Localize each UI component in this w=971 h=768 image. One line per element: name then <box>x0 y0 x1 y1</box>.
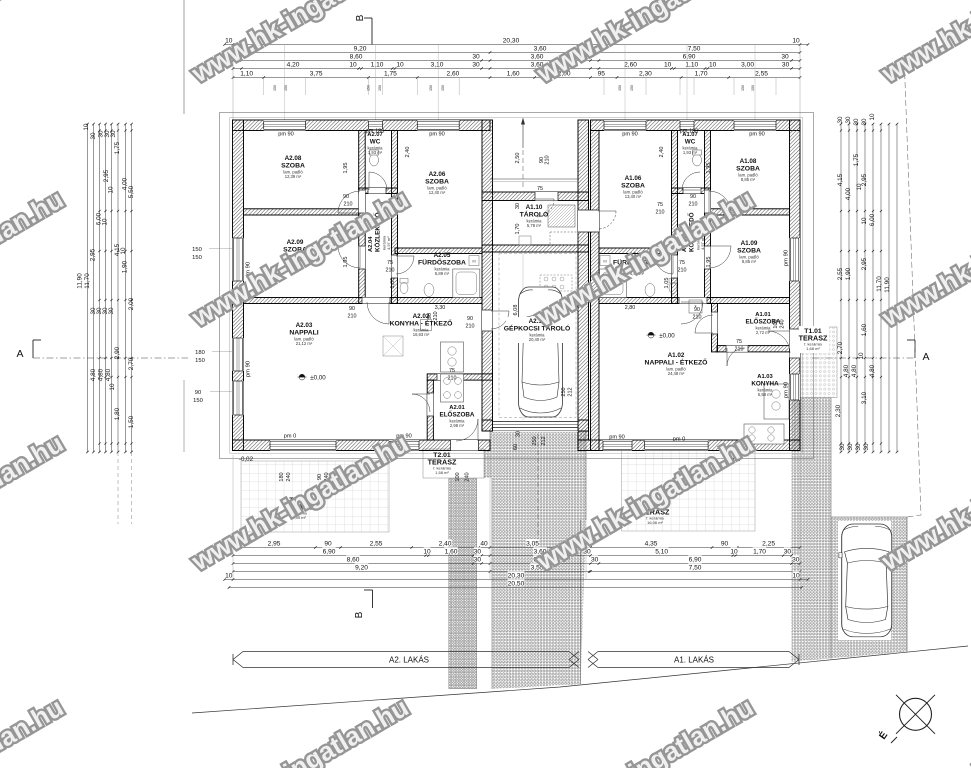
svg-text:150: 150 <box>192 255 202 261</box>
svg-text:2,25: 2,25 <box>762 541 775 548</box>
svg-text:KONYHA: KONYHA <box>751 381 779 388</box>
svg-text:4,80: 4,80 <box>869 364 876 377</box>
svg-text:KONYHA - ÉTKEZŐ: KONYHA - ÉTKEZŐ <box>390 319 453 328</box>
partition corridor west A2 <box>359 131 366 304</box>
svg-text:90: 90 <box>195 390 201 396</box>
svg-text:1,05: 1,05 <box>664 278 670 289</box>
door arc A2.08 <box>338 191 360 213</box>
svg-text:21,12 m²: 21,12 m² <box>296 341 313 346</box>
svg-text:4,35: 4,35 <box>645 541 658 548</box>
svg-text:100: 100 <box>455 472 461 481</box>
svg-text:GÉPKOCSI TÁROLÓ: GÉPKOCSI TÁROLÓ <box>504 324 570 333</box>
svg-text:90: 90 <box>467 316 473 322</box>
garage shelf fixture <box>540 275 572 291</box>
svg-text:30: 30 <box>90 132 97 140</box>
svg-text:2,95: 2,95 <box>103 169 110 182</box>
svg-text:100: 100 <box>773 319 779 328</box>
svg-text:3,60: 3,60 <box>534 46 547 53</box>
svg-text:1,75: 1,75 <box>114 141 121 154</box>
svg-text:30: 30 <box>792 557 800 564</box>
svg-text:150: 150 <box>441 85 445 91</box>
svg-text:150: 150 <box>367 85 371 91</box>
svg-text:150: 150 <box>273 85 277 91</box>
svg-text:pm 180: pm 180 <box>366 129 385 135</box>
svg-text:2,30: 2,30 <box>835 404 842 417</box>
svg-text:3,75: 3,75 <box>310 71 323 78</box>
svg-text:4,00: 4,00 <box>845 187 852 200</box>
svg-text:A1.02: A1.02 <box>668 352 685 359</box>
svg-text:240: 240 <box>465 472 471 481</box>
svg-text:150: 150 <box>193 398 203 404</box>
svg-text:250: 250 <box>532 436 538 445</box>
svg-text:30: 30 <box>855 443 862 451</box>
door arc A1.09 <box>709 246 731 268</box>
svg-text:3,10: 3,10 <box>431 62 444 69</box>
svg-text:1,60: 1,60 <box>445 549 458 556</box>
svg-text:WC: WC <box>685 139 696 146</box>
svg-text:2,70: 2,70 <box>837 341 844 354</box>
svg-text:6,90: 6,90 <box>683 54 696 61</box>
svg-text:30: 30 <box>853 118 860 126</box>
partition bedrooms-living A2 <box>244 298 483 304</box>
door arc bathroom A2.05 <box>396 256 414 274</box>
svg-text:A: A <box>16 348 23 360</box>
svg-text:210: 210 <box>433 311 439 320</box>
svg-text:10: 10 <box>792 38 800 45</box>
svg-text:150: 150 <box>429 85 433 91</box>
terrace T1.02 grid <box>621 451 755 532</box>
door arc konyha-garage <box>491 311 509 329</box>
svg-text:210: 210 <box>466 324 475 330</box>
door arc corridor-living A2 <box>367 302 389 324</box>
svg-text:180: 180 <box>195 350 205 356</box>
garage center axis line <box>522 252 524 420</box>
svg-text:A1.06: A1.06 <box>625 175 642 182</box>
svg-text:8,85 m²: 8,85 m² <box>741 177 756 182</box>
svg-text:1,05: 1,05 <box>390 278 396 289</box>
svg-text:75: 75 <box>679 260 685 266</box>
svg-text:5,50: 5,50 <box>128 185 135 198</box>
svg-text:60: 60 <box>513 444 519 450</box>
svg-text:210: 210 <box>656 210 665 216</box>
svg-text:10: 10 <box>858 352 865 360</box>
svg-text:240: 240 <box>286 472 292 481</box>
svg-text:4,80: 4,80 <box>843 364 850 377</box>
exterior wall west A2 <box>233 120 244 451</box>
svg-text:1,95: 1,95 <box>706 257 712 268</box>
svg-text:SZOBA: SZOBA <box>281 163 305 170</box>
svg-text:95: 95 <box>598 71 606 78</box>
windows east wall <box>790 238 801 281</box>
svg-text:1,70: 1,70 <box>753 549 766 556</box>
svg-text:5,78 m²: 5,78 m² <box>527 223 542 228</box>
windows top facade A1 <box>604 120 646 131</box>
svg-text:1,95: 1,95 <box>343 163 349 174</box>
svg-text:10: 10 <box>861 217 868 225</box>
svg-text:3,00: 3,00 <box>741 62 754 69</box>
svg-text:11,70: 11,70 <box>84 273 91 289</box>
svg-text:5,89 m²: 5,89 m² <box>435 271 450 276</box>
svg-text:2,95: 2,95 <box>89 248 96 261</box>
fridge A1 <box>689 300 702 313</box>
svg-text:pm 90: pm 90 <box>278 132 294 138</box>
svg-text:10: 10 <box>109 383 116 391</box>
left stack intermediate ticks <box>98 129 100 131</box>
south openings A2: sliding door pm0, window, entry door <box>270 440 336 451</box>
svg-text:30: 30 <box>837 116 844 124</box>
top dimension block <box>223 38 809 79</box>
top guide lines <box>183 0 185 114</box>
svg-text:90: 90 <box>343 194 349 200</box>
exterior wall east A1 <box>790 120 801 451</box>
svg-text:pm 90: pm 90 <box>749 132 765 138</box>
svg-text:240: 240 <box>780 319 786 328</box>
svg-text:A: A <box>922 351 929 363</box>
svg-text:4,20: 4,20 <box>287 62 300 69</box>
svg-text:20,50: 20,50 <box>508 581 525 588</box>
svg-text:6,00: 6,00 <box>869 213 876 226</box>
svg-text:pm 90: pm 90 <box>429 132 445 138</box>
svg-text:30: 30 <box>516 431 522 437</box>
terrace T2.01 grid <box>423 449 484 478</box>
svg-text:4,15: 4,15 <box>837 173 844 186</box>
partition corridor east A1 <box>705 131 711 304</box>
svg-text:30: 30 <box>591 557 599 564</box>
svg-text:212: 212 <box>541 436 547 445</box>
svg-text:10: 10 <box>709 62 717 69</box>
svg-text:30: 30 <box>784 549 792 556</box>
svg-text:30: 30 <box>472 54 480 61</box>
svg-text:2,00: 2,00 <box>128 297 135 310</box>
door courtyard-storage <box>535 192 558 201</box>
svg-text:210: 210 <box>678 268 687 274</box>
svg-text:30: 30 <box>474 557 482 564</box>
svg-text:2,60: 2,60 <box>624 62 637 69</box>
svg-text:212: 212 <box>568 387 574 396</box>
svg-text:A1.09: A1.09 <box>741 240 758 247</box>
door arc eloszoba-konyha A1 <box>727 348 745 366</box>
courtyard east wall / A1 west outer <box>578 120 589 440</box>
partition WC south A1 <box>672 188 711 194</box>
door arc eloszoba-konyha A2 <box>412 394 430 412</box>
svg-text:30: 30 <box>781 54 789 61</box>
svg-text:75: 75 <box>537 186 543 192</box>
svg-text:A2.04: A2.04 <box>368 236 374 252</box>
svg-text:A2. LAKÁS: A2. LAKÁS <box>389 656 429 665</box>
svg-text:1,93 m²: 1,93 m² <box>368 150 383 155</box>
svg-text:1,95: 1,95 <box>706 163 712 174</box>
svg-text:10: 10 <box>856 183 863 191</box>
svg-text:90: 90 <box>690 194 696 200</box>
svg-text:2,98 m²: 2,98 m² <box>450 423 465 428</box>
svg-text:1,58 m²: 1,58 m² <box>435 470 449 475</box>
svg-text:4,80: 4,80 <box>97 368 104 381</box>
svg-text:6,90: 6,90 <box>689 557 702 564</box>
garage dashed inner outline <box>499 254 576 418</box>
svg-text:30: 30 <box>847 443 854 451</box>
svg-text:11,70: 11,70 <box>876 276 883 292</box>
terrace T1.01 dotted <box>800 327 837 398</box>
svg-text:1,60: 1,60 <box>507 71 520 78</box>
windows west wall <box>233 238 244 281</box>
svg-text:A1.03: A1.03 <box>757 374 773 380</box>
svg-text:75: 75 <box>657 202 663 208</box>
svg-text:pm 90: pm 90 <box>784 250 790 266</box>
svg-text:2,40: 2,40 <box>439 541 452 548</box>
svg-text:NAPPALI - ÉTKEZŐ: NAPPALI - ÉTKEZŐ <box>645 358 708 367</box>
walkway strip below T2.01 <box>449 479 477 689</box>
svg-text:4,97 m²: 4,97 m² <box>386 236 391 250</box>
svg-text:A2.03: A2.03 <box>296 322 313 329</box>
svg-text:B: B <box>354 611 365 618</box>
svg-text:210: 210 <box>689 202 698 208</box>
svg-text:30: 30 <box>472 62 480 69</box>
bottom dimension rows <box>223 539 809 589</box>
svg-text:SZOBA: SZOBA <box>425 179 449 186</box>
svg-text:pm 90: pm 90 <box>246 361 252 377</box>
svg-text:12,39 m²: 12,39 m² <box>285 174 302 179</box>
partition bedrooms-living A1 <box>599 298 790 304</box>
svg-text:10: 10 <box>107 186 114 194</box>
south openings A1 <box>603 440 632 451</box>
svg-text:2,50: 2,50 <box>515 153 521 164</box>
svg-text:A1. LAKÁS: A1. LAKÁS <box>674 656 714 665</box>
svg-text:1,80: 1,80 <box>114 407 121 420</box>
svg-text:90: 90 <box>324 541 332 548</box>
svg-text:20,40 m²: 20,40 m² <box>529 337 546 342</box>
svg-text:2,40: 2,40 <box>405 147 411 158</box>
svg-text:1,10: 1,10 <box>240 71 253 78</box>
svg-text:75: 75 <box>449 368 455 374</box>
small rotated dim labels inside plan <box>279 147 786 484</box>
terrace T2.02 grid <box>241 461 389 532</box>
svg-text:20,30: 20,30 <box>503 38 520 45</box>
svg-text:2,90: 2,90 <box>114 346 121 359</box>
svg-text:20,30: 20,30 <box>508 573 525 580</box>
svg-text:8,60: 8,60 <box>347 557 360 564</box>
svg-text:150: 150 <box>284 85 288 91</box>
svg-text:A2.05: A2.05 <box>434 252 451 259</box>
svg-text:±0,00: ±0,00 <box>310 374 326 381</box>
svg-text:10: 10 <box>101 218 108 226</box>
svg-text:pm 90: pm 90 <box>622 132 638 138</box>
svg-text:75: 75 <box>736 339 742 345</box>
svg-text:10: 10 <box>730 549 738 556</box>
door konyha-garage A2 <box>482 310 493 331</box>
plinth thin outline <box>230 118 803 454</box>
svg-text:10: 10 <box>349 62 357 69</box>
svg-text:150: 150 <box>751 85 755 91</box>
svg-text:6,90: 6,90 <box>323 549 336 556</box>
svg-text:A1.08: A1.08 <box>740 158 757 165</box>
svg-text:1,93 m²: 1,93 m² <box>683 150 698 155</box>
svg-text:150: 150 <box>192 247 202 253</box>
courtyard floor line <box>490 178 579 180</box>
partition A1.06-A1.05 <box>599 248 672 254</box>
parking area hatched <box>831 517 907 658</box>
terrain diagonal line <box>192 646 968 713</box>
svg-text:9,20: 9,20 <box>355 565 368 572</box>
svg-text:1,70: 1,70 <box>515 224 521 235</box>
small horizontal dim labels inside plan <box>343 186 744 382</box>
svg-text:TÁROLÓ: TÁROLÓ <box>520 210 549 219</box>
svg-text:FÜRDŐSZOBA: FÜRDŐSZOBA <box>418 258 466 267</box>
svg-text:2,55: 2,55 <box>755 71 768 78</box>
svg-text:3,10: 3,10 <box>861 391 868 404</box>
svg-text:150: 150 <box>618 85 622 91</box>
partition eloszoba north A2 <box>427 374 492 380</box>
partition A2.08-A2.09 <box>244 209 359 215</box>
svg-text:13,40 m²: 13,40 m² <box>625 194 642 199</box>
svg-text:210: 210 <box>545 155 551 164</box>
partition A2.06-A2.05 <box>395 248 482 254</box>
svg-text:A2.01: A2.01 <box>449 405 465 411</box>
svg-text:5,58 m²: 5,58 m² <box>758 392 773 397</box>
svg-text:10: 10 <box>225 573 233 580</box>
svg-text:8,85 m²: 8,85 m² <box>742 259 757 264</box>
svg-text:4,80: 4,80 <box>90 368 97 381</box>
svg-text:1,95: 1,95 <box>343 257 349 268</box>
door arc bathroom A1.05 <box>655 256 673 274</box>
svg-text:2,95: 2,95 <box>268 541 281 548</box>
parking car white backing <box>838 521 891 640</box>
svg-text:ELŐSZOBA: ELŐSZOBA <box>440 410 475 419</box>
svg-text:2,72 m²: 2,72 m² <box>756 330 771 335</box>
garage door opening south <box>493 420 579 432</box>
svg-text:150: 150 <box>741 85 745 91</box>
svg-text:11,90: 11,90 <box>884 277 891 293</box>
bathroom A1.05 fixtures <box>600 269 627 298</box>
car in parking <box>839 524 895 637</box>
unit banner A1 LAKAS <box>588 652 799 668</box>
door storage to A1.06 <box>578 210 599 232</box>
partition WC south A2 <box>359 188 398 194</box>
WC A1.07 toilet <box>693 154 702 166</box>
fridge A2 <box>421 320 432 331</box>
svg-text:1,75: 1,75 <box>853 153 860 166</box>
door arc entry A2.01 <box>456 419 478 441</box>
svg-text:30: 30 <box>861 118 868 126</box>
partition A1.08-A1.09 <box>711 209 790 215</box>
svg-text:1,70: 1,70 <box>695 71 708 78</box>
kitchen A1.03 fixtures <box>764 384 789 419</box>
svg-text:90: 90 <box>349 306 355 312</box>
svg-text:7,50: 7,50 <box>689 565 702 572</box>
svg-text:12,40 m²: 12,40 m² <box>429 190 446 195</box>
property line right dashed <box>904 55 921 517</box>
wall courtyard-storage with door <box>482 192 589 201</box>
svg-text:-0,02: -0,02 <box>239 456 254 463</box>
partition eloszoba west A2 <box>427 380 433 440</box>
svg-text:30: 30 <box>782 62 790 69</box>
svg-text:40: 40 <box>480 541 488 548</box>
svg-text:9,20: 9,20 <box>354 46 367 53</box>
svg-text:pm 90: pm 90 <box>609 435 625 441</box>
svg-text:150: 150 <box>195 358 205 364</box>
svg-text:SZOBA: SZOBA <box>621 183 645 190</box>
svg-text:30: 30 <box>474 549 482 556</box>
svg-text:1,90: 1,90 <box>845 267 852 280</box>
exterior wall south A1 <box>578 440 800 451</box>
door arc WC A2.07 <box>369 172 387 190</box>
windows top facade A2 <box>264 120 306 131</box>
svg-text:1,68 m²: 1,68 m² <box>806 346 820 351</box>
skylight square nappali A2 <box>383 336 403 356</box>
svg-text:A1.01: A1.01 <box>755 312 771 318</box>
svg-text:10: 10 <box>664 62 672 69</box>
room label A2.04 KOZLEKEDO rotated <box>368 212 382 252</box>
svg-text:4,80: 4,80 <box>851 364 858 377</box>
left vertical dimension stack <box>86 123 133 454</box>
tiny 150 window markers <box>273 85 755 91</box>
svg-text:SZOBA: SZOBA <box>736 166 760 173</box>
svg-text:16,06 m²: 16,06 m² <box>647 520 663 525</box>
door arc storage-A1.06 dashed <box>598 211 616 229</box>
partition eloszoba west A1 <box>712 304 718 352</box>
svg-text:30: 30 <box>108 307 115 315</box>
eaves outline <box>220 113 814 459</box>
svg-text:1,75: 1,75 <box>384 71 397 78</box>
door arc WC A1.07 <box>682 172 700 190</box>
left stack lower dashed extensions <box>117 452 119 524</box>
svg-text:A2.08: A2.08 <box>285 155 302 162</box>
svg-text:10: 10 <box>869 113 876 121</box>
door arc corridor-living A1 <box>681 302 703 324</box>
svg-text:pm 90: pm 90 <box>784 382 790 398</box>
svg-text:A2.06: A2.06 <box>429 171 446 178</box>
svg-text:pm 0: pm 0 <box>284 434 296 440</box>
bottom guide lines <box>232 455 234 580</box>
car in garage <box>516 287 565 417</box>
svg-text:180: 180 <box>279 472 285 481</box>
storage room fixtures <box>548 205 575 227</box>
WC A2.07 toilet <box>370 154 379 166</box>
svg-text:1,60: 1,60 <box>861 323 868 336</box>
svg-text:11,90: 11,90 <box>76 273 83 289</box>
svg-text:2,30: 2,30 <box>639 71 652 78</box>
svg-text:pm 0: pm 0 <box>673 437 685 443</box>
door arc entry A1.01 from terrace <box>768 331 790 353</box>
wall storage-garage <box>482 245 589 252</box>
entry door east wall A1 <box>790 329 801 358</box>
svg-text:NAPPALI: NAPPALI <box>289 330 318 337</box>
partition corridor east A2 <box>392 131 398 304</box>
svg-text:±0,00: ±0,00 <box>659 332 675 339</box>
svg-text:150: 150 <box>630 85 634 91</box>
room label A1.04 KOZLEKEDO rotated <box>682 212 696 252</box>
svg-text:90: 90 <box>721 541 729 548</box>
svg-text:2,55: 2,55 <box>370 541 383 548</box>
driveway center dashed line <box>537 434 539 545</box>
exterior wall top right unit A1 <box>591 120 801 131</box>
right vertical dimension stack <box>840 123 899 454</box>
svg-text:3,30: 3,30 <box>435 305 446 311</box>
svg-text:2,40: 2,40 <box>659 147 665 158</box>
svg-text:210: 210 <box>693 315 702 321</box>
svg-text:1,50: 1,50 <box>128 415 135 428</box>
svg-text:2,55: 2,55 <box>837 267 844 280</box>
svg-text:2,60: 2,60 <box>446 71 459 78</box>
svg-text:210: 210 <box>448 376 457 382</box>
svg-text:210: 210 <box>344 202 353 208</box>
svg-text:1,10: 1,10 <box>371 62 384 69</box>
svg-text:6,08: 6,08 <box>513 305 519 316</box>
room label A2.10 <box>506 317 568 343</box>
svg-text:2,70: 2,70 <box>128 357 135 370</box>
door arc eloszoba A1 <box>695 315 713 333</box>
door openings interior A1 <box>705 190 711 213</box>
svg-text:pm 180: pm 180 <box>680 129 699 135</box>
